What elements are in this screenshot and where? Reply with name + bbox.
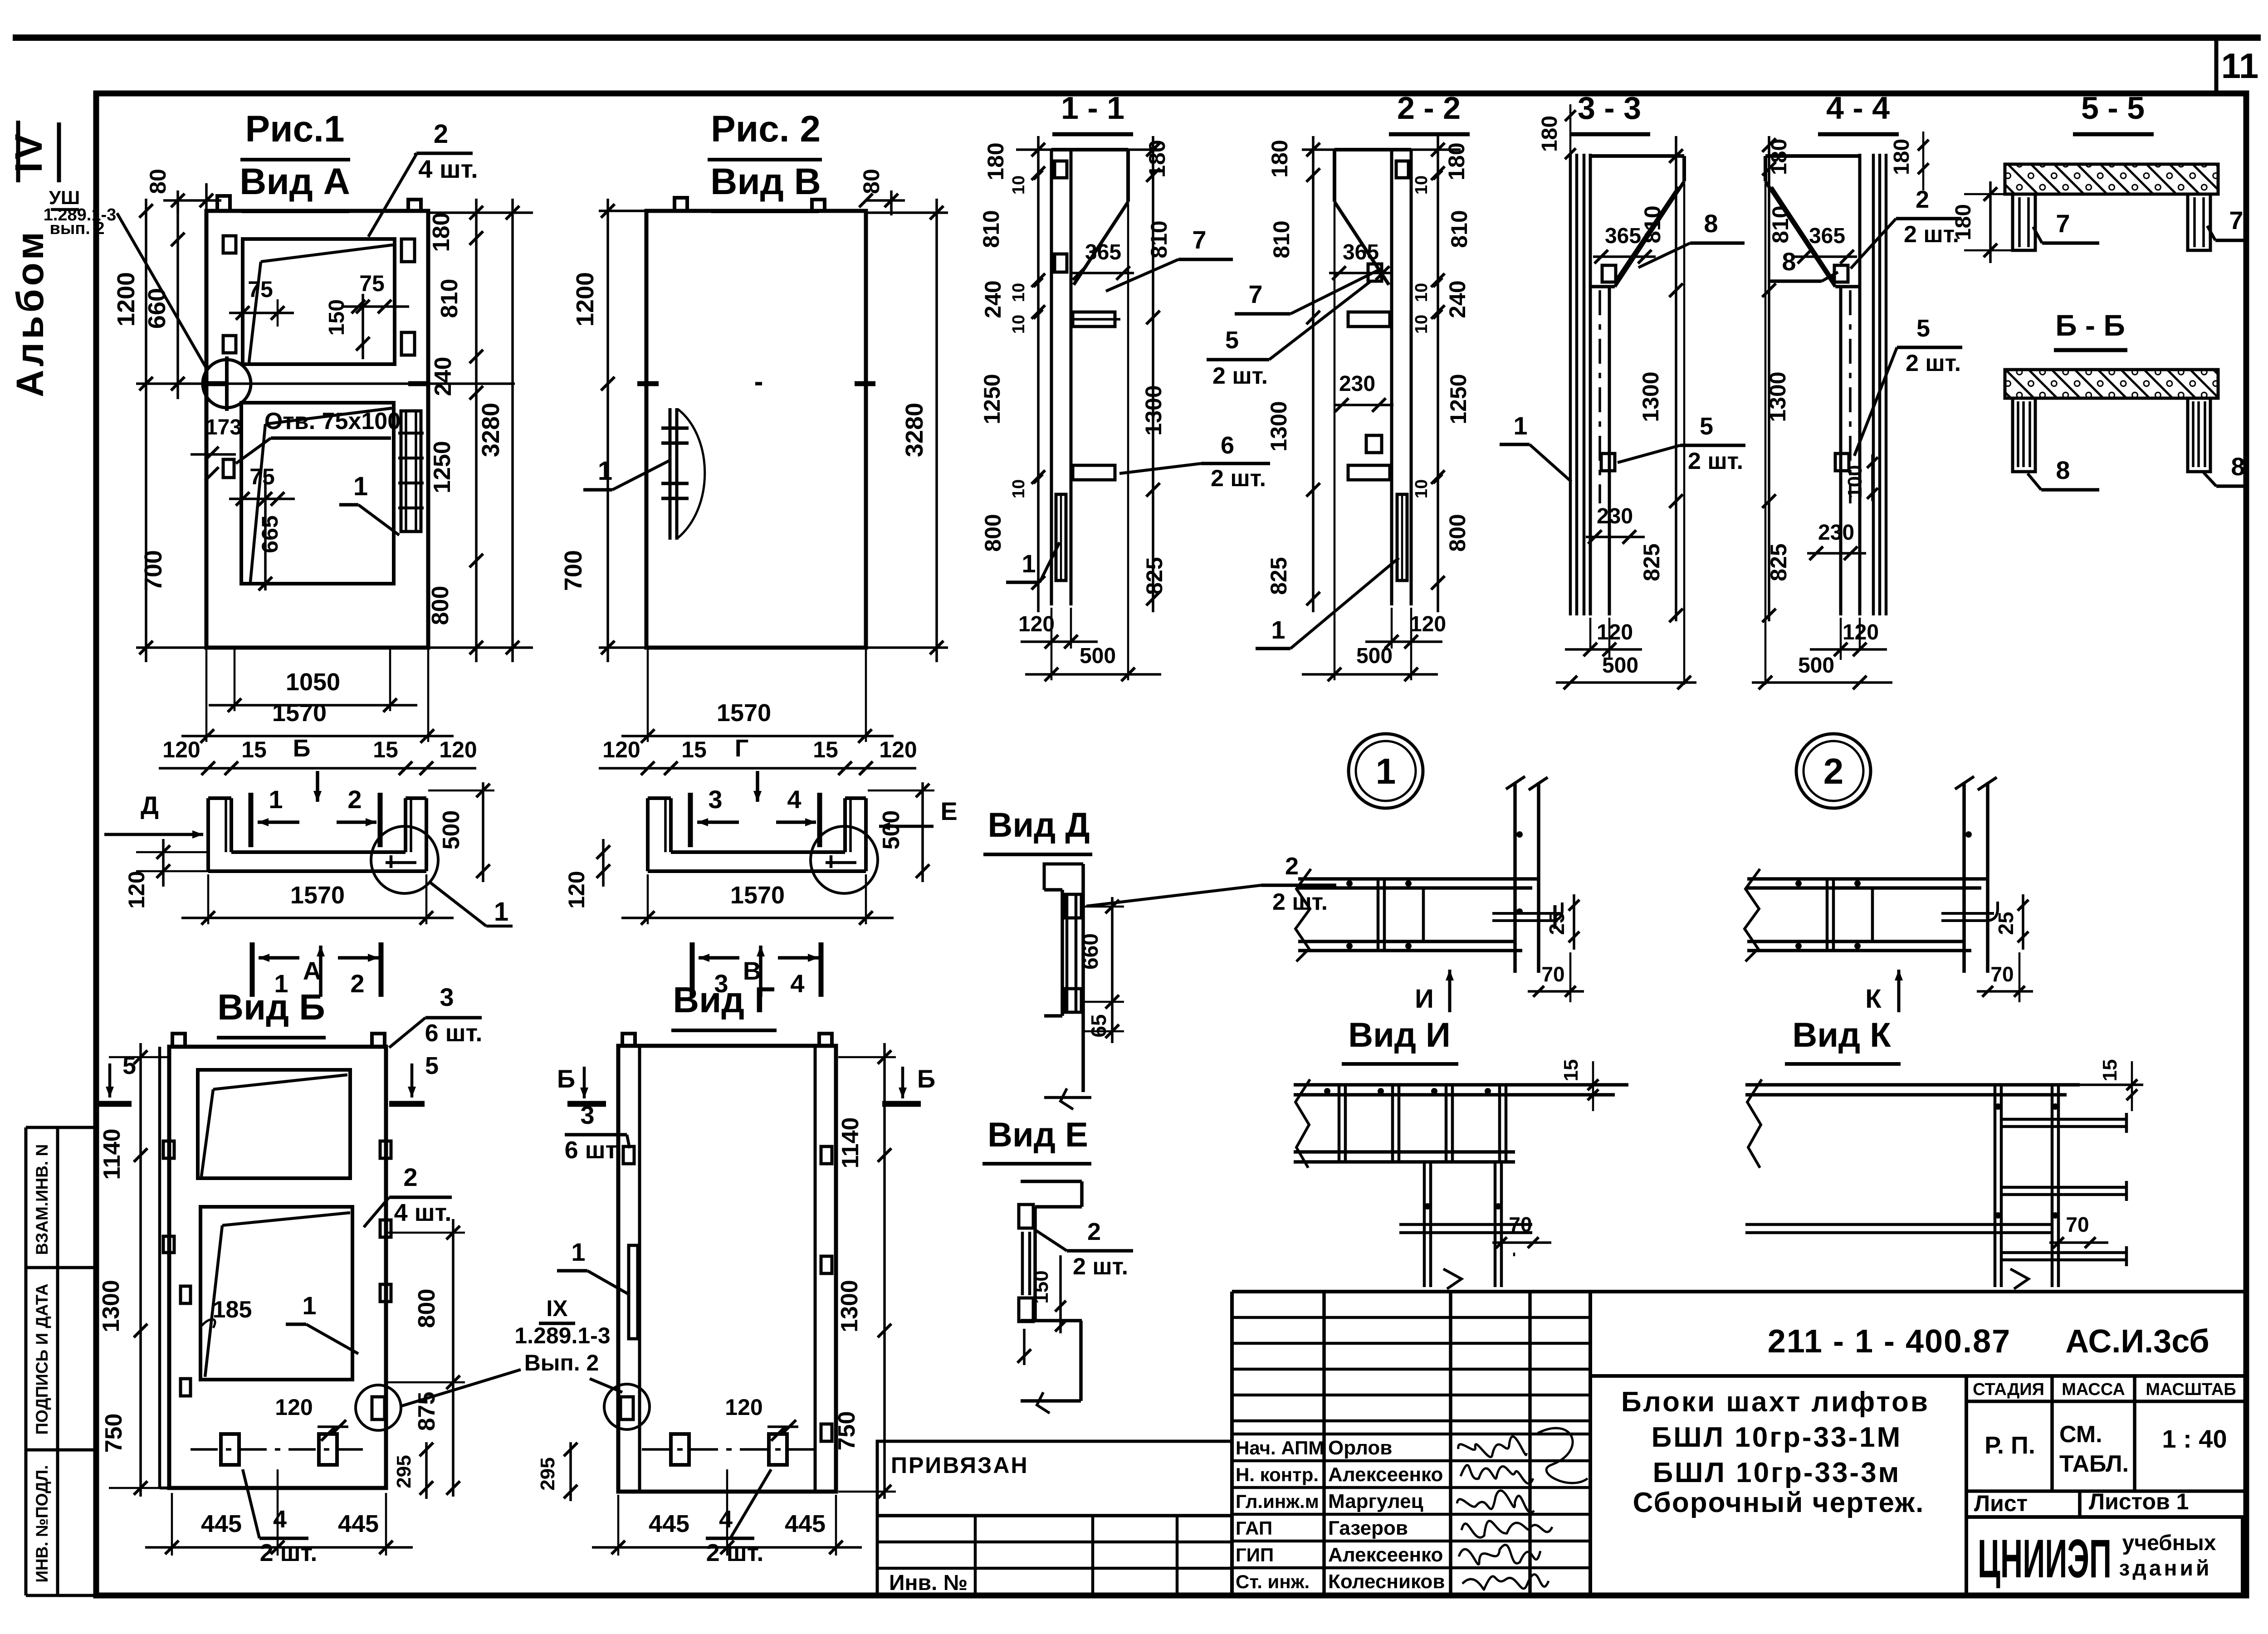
svg-text:И: И [1415,984,1434,1014]
svg-text:750: 750 [834,1411,860,1451]
svg-text:3280: 3280 [901,403,928,457]
svg-text:2: 2 [403,1163,417,1191]
Вид И top rail [1294,1083,1628,1087]
detail 2 bottom slab bars [1747,940,1964,943]
underline of Рис.1 [240,158,350,161]
svg-text:Алексеенко: Алексеенко [1328,1463,1443,1486]
Вид Б left dim chain 1140/1300/750 [139,1043,142,1497]
svg-text:5: 5 [425,1052,439,1079]
svg-text:6 шт.: 6 шт. [565,1136,622,1164]
plate embed 1-1 lower [1073,465,1115,480]
fig2 detail circle on plan corner [811,826,878,893]
svg-text:1300: 1300 [1141,385,1166,435]
svg-text:4 - 4: 4 - 4 [1826,90,1890,126]
Вид Д bracket outline [1044,864,1083,890]
svg-text:230: 230 [1597,504,1633,528]
svg-text:445: 445 [201,1510,242,1537]
sign table label rows [1232,1433,1590,1436]
svg-text:800: 800 [414,1289,440,1328]
svg-text:1: 1 [302,1291,316,1320]
svg-text:Отв. 75х100: Отв. 75х100 [264,408,401,434]
embed plate mid-right [401,332,415,355]
svg-text:Орлов: Орлов [1328,1437,1392,1459]
svg-text:445: 445 [338,1510,379,1537]
svg-text:180: 180 [1767,139,1791,175]
svg-text:Н. контр.: Н. контр. [1236,1464,1319,1485]
svg-text:1.289.1-3: 1.289.1-3 [514,1323,610,1348]
svg-text:ТАБЛ.: ТАБЛ. [2059,1451,2129,1477]
dim 75 right upper [341,305,409,308]
svg-text:120: 120 [275,1395,313,1420]
svg-text:180: 180 [428,213,455,252]
fig2 dim 1570 below plan [647,874,649,924]
svg-text:230: 230 [1818,521,1854,545]
left chain 1-1 [1037,136,1040,612]
fig2 plan U-channel bottom slab [648,869,866,873]
svg-text:75: 75 [359,271,385,296]
svg-text:80: 80 [859,169,884,194]
bottom extension line [136,646,533,649]
dim 15 Вид И [1592,1061,1594,1111]
detail 1 bottom slab bars [1298,940,1515,943]
top extension 1-1 [1016,148,1161,151]
svg-text:Е: Е [940,797,957,825]
svg-text:1: 1 [571,1238,585,1266]
axis thick dash left [205,381,227,386]
svg-text:1300: 1300 [1266,401,1291,451]
svg-text:Вид А: Вид А [240,161,350,202]
dim 295 [425,1442,428,1499]
dim 660 Вид Д [1111,897,1114,1043]
svg-text:240: 240 [430,357,456,396]
lifting loop fig2 right [812,200,825,211]
detail 2 left break [1745,869,1760,961]
svg-text:70: 70 [1541,962,1564,986]
svg-text:Д: Д [141,791,159,819]
lifting loop Вид Г left [622,1034,635,1046]
svg-text:Б: Б [917,1064,935,1093]
dim 25 detail 2 [2022,894,2024,950]
svg-text:180: 180 [1538,116,1562,152]
svg-text:2: 2 [1087,1218,1101,1245]
inner edge lines Вид Г [638,1046,641,1492]
embed plate at hat bottom 2-2 [1368,264,1382,281]
embeds on Вид Г strips [623,1146,634,1164]
dim 100 in 4-4 [1871,454,1874,501]
detail 1 left break [1295,869,1311,961]
lifting loop Вид Б left [172,1034,185,1047]
attachment box ПРИВЯЗАН [877,1441,1232,1595]
svg-text:5 - 5: 5 - 5 [2081,90,2145,126]
Вид И posts [1338,1085,1341,1161]
svg-text:825: 825 [1266,557,1291,595]
dim 150 Вид Е [1059,1255,1062,1333]
Вид И middle rail [1294,1150,1515,1154]
Вид Д plate lines [1066,894,1069,1012]
svg-text:25: 25 [1994,912,2018,935]
svg-text:180: 180 [1951,204,1975,240]
fig2 dim 120 left of plan [602,839,605,887]
svg-text:Р. П.: Р. П. [1984,1432,2035,1459]
svg-text:365: 365 [1605,224,1641,248]
Вид И left break [1295,1079,1310,1168]
hat inner diagonal 4-4 [1772,187,1833,280]
svg-text:800: 800 [1445,514,1470,551]
svg-text:1140: 1140 [99,1129,125,1180]
detail 2 wall verticals [1962,782,1966,973]
svg-text:6 шт.: 6 шт. [425,1019,483,1047]
detail 1 corner bar with hook [1492,902,1562,921]
left frame column boxes [24,1127,28,1595]
svg-text:8: 8 [1782,247,1796,276]
svg-text:180: 180 [1444,142,1469,180]
detail 2 wall top break [1955,776,1974,789]
bottom arrows 1 А 2 [250,942,255,997]
embed below hat 4-4 [1834,265,1848,282]
svg-text:7: 7 [2229,206,2243,234]
embed mid 4-4 [1835,454,1849,471]
svg-text:825: 825 [1142,557,1167,595]
lifting loop Вид Г right [819,1034,832,1046]
svg-text:МАССА: МАССА [2062,1380,2125,1399]
break arc around channel [677,409,705,539]
dashed centreline 3-3 [1598,290,1601,503]
plan U-channel bottom slab [208,869,426,873]
detail 2 stirrups [1826,879,1829,951]
plan U-channel left wall [206,798,210,871]
svg-text:1250: 1250 [429,441,455,493]
svg-text:2 - 2: 2 - 2 [1397,90,1461,126]
signatures squiggles [1458,1437,1526,1457]
svg-text:Ст. инж.: Ст. инж. [1236,1571,1310,1592]
svg-text:Вид Д: Вид Д [987,806,1090,844]
channel embed 1-1 [1056,494,1066,580]
embed below hat 3-3 [1602,265,1616,282]
hat of section 4-4 [1765,154,1860,158]
adjacent panel edge lines 3-3 [1569,154,1572,615]
stamp outer top line [1232,1290,2246,1293]
right leg Б-Б [2188,398,2210,472]
fig2 section mark 3 in plan [688,793,693,847]
detail 2 rebar dots [1795,880,1802,887]
svg-text:8: 8 [1704,209,1718,238]
embeds on Вид Б edges [163,1141,174,1158]
Вид К long legs [1994,1085,1997,1287]
section mark 1 in plan [249,793,254,847]
svg-text:120: 120 [439,737,477,762]
svg-text:вып. 2: вып. 2 [49,219,104,238]
dim 15 Вид К [2131,1061,2133,1111]
embed plate upper-left [223,236,236,253]
svg-text:8: 8 [2231,452,2245,481]
svg-text:1: 1 [1271,615,1285,644]
svg-text:10: 10 [1009,315,1028,334]
Вид И long legs [1423,1162,1426,1287]
svg-text:10: 10 [1412,283,1431,302]
svg-text:Инв. №: Инв. № [889,1571,968,1595]
panel outline Рис.2 [646,211,866,648]
upper opening diagonal [261,245,393,262]
svg-text:120: 120 [564,871,589,908]
svg-text:445: 445 [785,1510,826,1537]
anchor sockets at bottom Вид Б [221,1434,239,1465]
Вид К bottom break [2010,1269,2028,1289]
dim 75 left upper [229,312,294,314]
svg-text:660: 660 [143,288,171,329]
svg-text:10: 10 [1412,315,1431,334]
leader from reference to node circle [117,213,206,368]
dashed centreline 4-4 [1849,290,1852,503]
svg-text:1 : 40: 1 : 40 [2162,1424,2227,1453]
top dim 80 [205,183,208,213]
Вид Е plate lines [1021,1232,1024,1295]
hatched beam 5-5 [2005,164,2218,194]
svg-text:1140: 1140 [837,1117,864,1169]
svg-text:4: 4 [787,785,801,814]
svg-text:750: 750 [101,1414,127,1453]
svg-text:8: 8 [2056,456,2070,484]
Вид К rebar dots [1995,1103,2001,1110]
bottom dims 2-2 [1391,608,1393,649]
svg-text:2 шт.: 2 шт. [1688,448,1743,474]
svg-text:1: 1 [494,897,508,927]
svg-text:ПРИВЯЗАН: ПРИВЯЗАН [891,1453,1029,1478]
embed plate mid-left [223,336,236,353]
svg-text:230: 230 [1339,372,1375,396]
detail circle on plan corner [371,826,438,893]
svg-text:7: 7 [1248,280,1262,308]
svg-text:1250: 1250 [1446,374,1471,424]
svg-text:УШ: УШ [49,187,80,208]
dim 120 left of plan [162,839,165,887]
svg-text:1300: 1300 [98,1280,124,1332]
svg-text:Вид Г: Вид Г [673,980,775,1020]
svg-text:Г: Г [735,735,749,762]
svg-text:185: 185 [213,1297,252,1323]
svg-text:660: 660 [1079,933,1103,970]
svg-text:Рис. 2: Рис. 2 [711,108,821,150]
svg-text:10: 10 [1412,479,1431,498]
svg-text:А: А [303,956,321,985]
fig2 bottom arrows 3 В 4 [690,942,695,997]
svg-text:70: 70 [2066,1213,2089,1236]
svg-text:75: 75 [249,464,275,489]
stamp left vertical [1230,1292,1234,1595]
wall lines 4-4 [1858,154,1862,615]
svg-text:75: 75 [248,277,273,302]
svg-text:2 шт.: 2 шт. [1211,465,1266,492]
svg-text:5: 5 [1916,315,1930,342]
svg-text:180: 180 [983,142,1008,180]
svg-text:2 шт.: 2 шт. [1904,221,1959,248]
svg-text:180: 180 [1267,140,1292,177]
svg-text:825: 825 [1766,543,1791,581]
svg-text:1 - 1: 1 - 1 [1061,90,1124,126]
bottom dims 1-1 [1051,608,1053,680]
svg-text:11: 11 [2221,46,2258,86]
hat inner diagonal 3-3 [1616,187,1678,280]
svg-text:4: 4 [790,969,804,998]
svg-text:Блоки шахт лифтов: Блоки шахт лифтов [1621,1386,1930,1418]
svg-text:Листов 1: Листов 1 [2089,1489,2189,1514]
top hat of section 1-1 [1051,148,1128,151]
embed in circle Вид Г [621,1397,633,1419]
svg-text:Колесников: Колесников [1328,1571,1445,1593]
svg-text:2: 2 [1285,853,1299,880]
svg-text:1: 1 [1022,549,1036,578]
anchor sockets Вид Г [671,1434,689,1465]
svg-text:ЦНИИЭП: ЦНИИЭП [1978,1528,2112,1589]
svg-text:810: 810 [436,279,463,318]
svg-text:2 шт.: 2 шт. [1073,1254,1128,1280]
hatched beam Б-Б [2005,370,2218,398]
dim 1050 below elevation [234,649,236,711]
detail 1 rebar dots [1346,880,1353,887]
svg-text:120: 120 [1410,612,1446,636]
svg-text:К: К [1865,984,1882,1014]
svg-text:500: 500 [878,810,904,850]
svg-text:1570: 1570 [717,699,771,727]
embed circle Вид Б [356,1385,401,1430]
svg-text:365: 365 [1809,224,1845,248]
wall lines section 1-1 [1050,150,1053,605]
svg-text:IV: IV [7,131,50,172]
svg-text:2 шт.: 2 шт. [1906,350,1961,376]
Вид Г right dim chain 1140/1300/750 [883,1043,886,1499]
svg-text:1: 1 [598,456,612,486]
Вид Е left dim line [1023,1329,1026,1365]
left leg Б-Б [2013,398,2035,472]
svg-text:80: 80 [145,169,171,194]
svg-text:15: 15 [2099,1059,2121,1082]
svg-text:2: 2 [434,119,448,149]
svg-text:1300: 1300 [1638,371,1663,422]
Вид Б right dim chain 800/875 [452,1219,455,1497]
svg-text:700: 700 [140,550,167,591]
svg-text:120: 120 [725,1395,763,1420]
Вид Е embed bottom [1019,1298,1033,1322]
dim 445 445 bottom Вид Б [171,1493,173,1556]
Вид И rebar dots [1324,1088,1330,1094]
page number box divider [2214,35,2219,94]
left chain 2-2 [1312,136,1315,612]
dim 70 Вид И [1513,1253,1515,1256]
svg-text:Рис.1: Рис.1 [245,108,344,150]
dim 70 detail 2 [1977,990,2033,993]
fig2 top-left extension [599,210,646,212]
plan dim row 120/15/Б/15/120 [159,767,476,770]
svg-text:4 шт.: 4 шт. [418,155,478,183]
svg-text:120: 120 [124,871,149,908]
svg-text:1570: 1570 [290,882,345,909]
svg-text:Маргулец: Маргулец [1328,1490,1423,1512]
leader from IX block to embed circle left [402,1370,521,1406]
section Г arrow down [756,771,759,802]
svg-text:Вид В: Вид В [710,161,821,202]
fig2 right chain 3280 [935,199,938,662]
svg-text:365: 365 [1085,240,1121,264]
svg-text:211 - 1 - 400.87: 211 - 1 - 400.87 [1768,1323,2011,1360]
embed plate lower-left hole jamb [223,459,234,478]
svg-text:2 шт.: 2 шт. [1272,889,1328,915]
svg-text:3280: 3280 [477,403,504,457]
svg-text:120: 120 [162,737,200,762]
channel embed 2-2 [1397,494,1407,580]
svg-text:10: 10 [1412,176,1431,195]
wall lines 3-3 [1589,154,1592,615]
svg-text:295: 295 [537,1457,559,1490]
leader from IX block to Вид Г circle [590,1379,622,1392]
right chain 1-1 [1152,136,1154,612]
svg-text:1050: 1050 [286,668,340,696]
svg-text:2: 2 [1823,751,1844,791]
channel embed inside fig2 [669,408,672,540]
fig2 dim 500 right of plan [921,782,924,882]
svg-text:ГАП: ГАП [1236,1517,1272,1539]
plan U-channel right wall [425,798,428,871]
svg-text:зданий: зданий [2119,1556,2212,1580]
panel outline Рис.1 [206,211,428,648]
fig2 plan U-channel right wall [864,798,868,871]
svg-text:120: 120 [1597,620,1633,644]
svg-text:Сборочный чертеж.: Сборочный чертеж. [1633,1487,1925,1518]
panel side face line [158,1047,161,1488]
svg-text:МАСШТАБ: МАСШТАБ [2146,1380,2236,1399]
underline of Вид В [711,210,819,213]
section Б arrow down [316,771,319,802]
embed plate upper-right [401,239,415,262]
svg-text:2 шт.: 2 шт. [706,1539,764,1566]
svg-text:3: 3 [440,983,454,1011]
left leg 5-5 [2013,194,2035,250]
svg-text:БШЛ 10гр-33-1М: БШЛ 10гр-33-1М [1652,1422,1902,1453]
svg-text:1200: 1200 [112,272,140,327]
left chain 4-4 [1768,136,1770,621]
svg-text:БШЛ 10гр-33-3м: БШЛ 10гр-33-3м [1653,1457,1901,1488]
svg-text:70: 70 [1990,962,2014,986]
section mark 2 in plan [378,793,383,847]
svg-text:4: 4 [719,1506,733,1533]
top extension 2-2 [1302,148,1461,151]
svg-text:1200: 1200 [572,272,599,327]
upper opening diagonal 2 [249,262,261,362]
Вид Е bottom break [1037,1392,1050,1413]
svg-text:СТАДИЯ: СТАДИЯ [1973,1380,2044,1399]
svg-text:6: 6 [1221,432,1234,459]
svg-text:3: 3 [708,785,722,814]
underline of Вид Б [217,1036,326,1039]
Вид Е lower step [1021,1319,1082,1322]
Вид И bottom break [1443,1269,1461,1289]
svg-text:120: 120 [1843,620,1879,644]
svg-text:Б: Б [293,735,311,762]
svg-text:15: 15 [241,737,267,762]
channel element on left strip [629,1245,638,1339]
dim 25 detail 1 [1573,894,1575,950]
axis dashes fig2 [637,381,659,386]
svg-text:1: 1 [1513,411,1527,440]
panel outline Вид Б [169,1047,386,1488]
svg-text:АС.И.3сб: АС.И.3сб [2065,1323,2209,1360]
bottom dims 3-3 [1589,618,1592,649]
lower opening diagonal [265,408,392,424]
svg-text:10: 10 [1009,479,1028,498]
roman numeral IV underline [57,122,61,182]
underline of Вид А [242,210,349,213]
svg-text:10: 10 [1009,176,1028,195]
svg-text:810: 810 [978,210,1004,248]
svg-text:ГИП: ГИП [1236,1544,1274,1566]
